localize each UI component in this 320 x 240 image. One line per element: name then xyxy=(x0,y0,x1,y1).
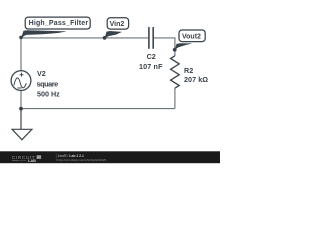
svg-text:C2: C2 xyxy=(147,52,156,61)
junction dot Vin2 node xyxy=(103,36,107,40)
designator label R2 xyxy=(184,66,193,75)
ground xyxy=(12,109,32,140)
svg-text:500 Hz: 500 Hz xyxy=(37,89,60,98)
svg-text:Vin2: Vin2 xyxy=(110,21,125,28)
watermark bar xyxy=(0,151,220,163)
value label 500 Hz xyxy=(37,89,60,98)
net flag Vout2 xyxy=(175,30,205,50)
wire C2 right plate to corner, down to R2 top xyxy=(154,38,175,56)
net flag High_Pass_Filter xyxy=(21,17,90,38)
designator label V2 xyxy=(37,69,46,78)
junction dot at top-left corner xyxy=(19,36,23,40)
svg-text:V2: V2 xyxy=(37,69,46,78)
capacitor C2 xyxy=(149,27,153,49)
value label square xyxy=(37,79,59,88)
voltage source V2 xyxy=(11,71,31,91)
svg-text:http://circuitlab.com/c/94hy92: http://circuitlab.com/c/94hy92d4925 xyxy=(58,158,107,162)
value label 107 nF xyxy=(139,62,163,71)
junction dot ground node xyxy=(19,107,23,111)
wire R2 bottom to bottom net xyxy=(174,88,176,108)
svg-text:207 kΩ: 207 kΩ xyxy=(184,75,208,84)
svg-text:∼∼: ∼∼ xyxy=(20,158,27,163)
svg-text:square: square xyxy=(37,79,59,88)
svg-text:107 nF: 107 nF xyxy=(139,62,163,71)
wire V2 bottom to ground junction xyxy=(20,91,22,109)
wire left vertical: corner down to V2 top xyxy=(20,38,22,71)
svg-text:LAB: LAB xyxy=(28,158,36,163)
wire bottom net: ground junction to right xyxy=(21,108,175,110)
wire top net Vin2: corner to C2 left plate xyxy=(21,37,148,39)
resistor R2 xyxy=(171,56,180,88)
junction dot Vout2 node xyxy=(173,48,177,52)
svg-text:High_Pass_Filter: High_Pass_Filter xyxy=(29,20,89,27)
value label 207 kOhm xyxy=(184,75,208,84)
designator label C2 xyxy=(147,52,156,61)
net flag Vin2 xyxy=(105,18,129,39)
svg-text:Vout2: Vout2 xyxy=(182,33,201,40)
svg-text:R2: R2 xyxy=(184,66,193,75)
